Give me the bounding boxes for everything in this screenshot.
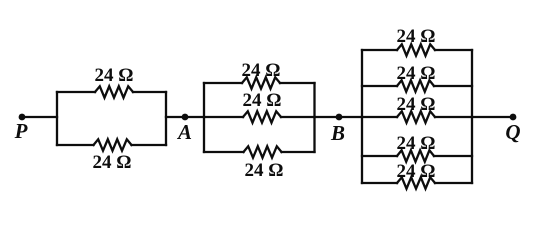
node B [330,114,345,145]
svg-text:24 Ω: 24 Ω [95,65,134,86]
svg-text:P: P [14,119,28,143]
wire [362,155,472,157]
svg-text:24 Ω: 24 Ω [397,133,436,154]
wire [204,151,315,153]
wire [204,116,315,118]
resistor R4 [243,111,281,122]
wire left junction bar of group 1 [56,92,58,145]
svg-text:24 Ω: 24 Ω [397,94,436,115]
resistor R1 [95,86,133,97]
wire left junction bar of group 2 [203,83,205,152]
wire [57,144,166,146]
svg-text:24 Ω: 24 Ω [242,60,281,81]
svg-text:24 Ω: 24 Ω [93,152,132,173]
resistor R5 [244,146,282,157]
wire right junction bar of group 3 [471,50,473,183]
resistor R3 [242,77,280,88]
wire group 3 to node Q [472,116,513,118]
resistor R7 [397,80,434,91]
svg-text:24 Ω: 24 Ω [397,63,436,84]
wire right junction bar of group 1 [165,92,167,145]
svg-text:Q: Q [505,120,520,144]
node A [176,114,192,144]
resistor R10 [397,177,435,188]
wire [57,91,166,93]
resistor R9 [397,150,434,161]
wire group 1 to node A to group 2 [166,116,204,118]
svg-text:24 Ω: 24 Ω [243,90,282,111]
resistor R2 [94,139,132,150]
wire [362,182,472,184]
svg-text:B: B [330,121,345,145]
wire group 2 to node B to group 3 [315,116,363,118]
svg-text:24 Ω: 24 Ω [397,161,436,182]
wire [362,85,472,87]
svg-text:24 Ω: 24 Ω [245,160,284,181]
svg-text:24 Ω: 24 Ω [397,26,436,47]
wire left junction bar of group 3 [361,50,363,183]
wire [204,82,315,84]
resistor R8 [397,111,435,122]
node P [14,114,28,143]
wire right junction bar of group 2 [313,83,315,152]
wire P to first parallel group [22,116,57,118]
node Q [505,114,520,144]
wire [362,116,472,118]
resistor R6 [397,44,435,55]
wire [362,49,472,51]
svg-text:A: A [176,120,192,144]
